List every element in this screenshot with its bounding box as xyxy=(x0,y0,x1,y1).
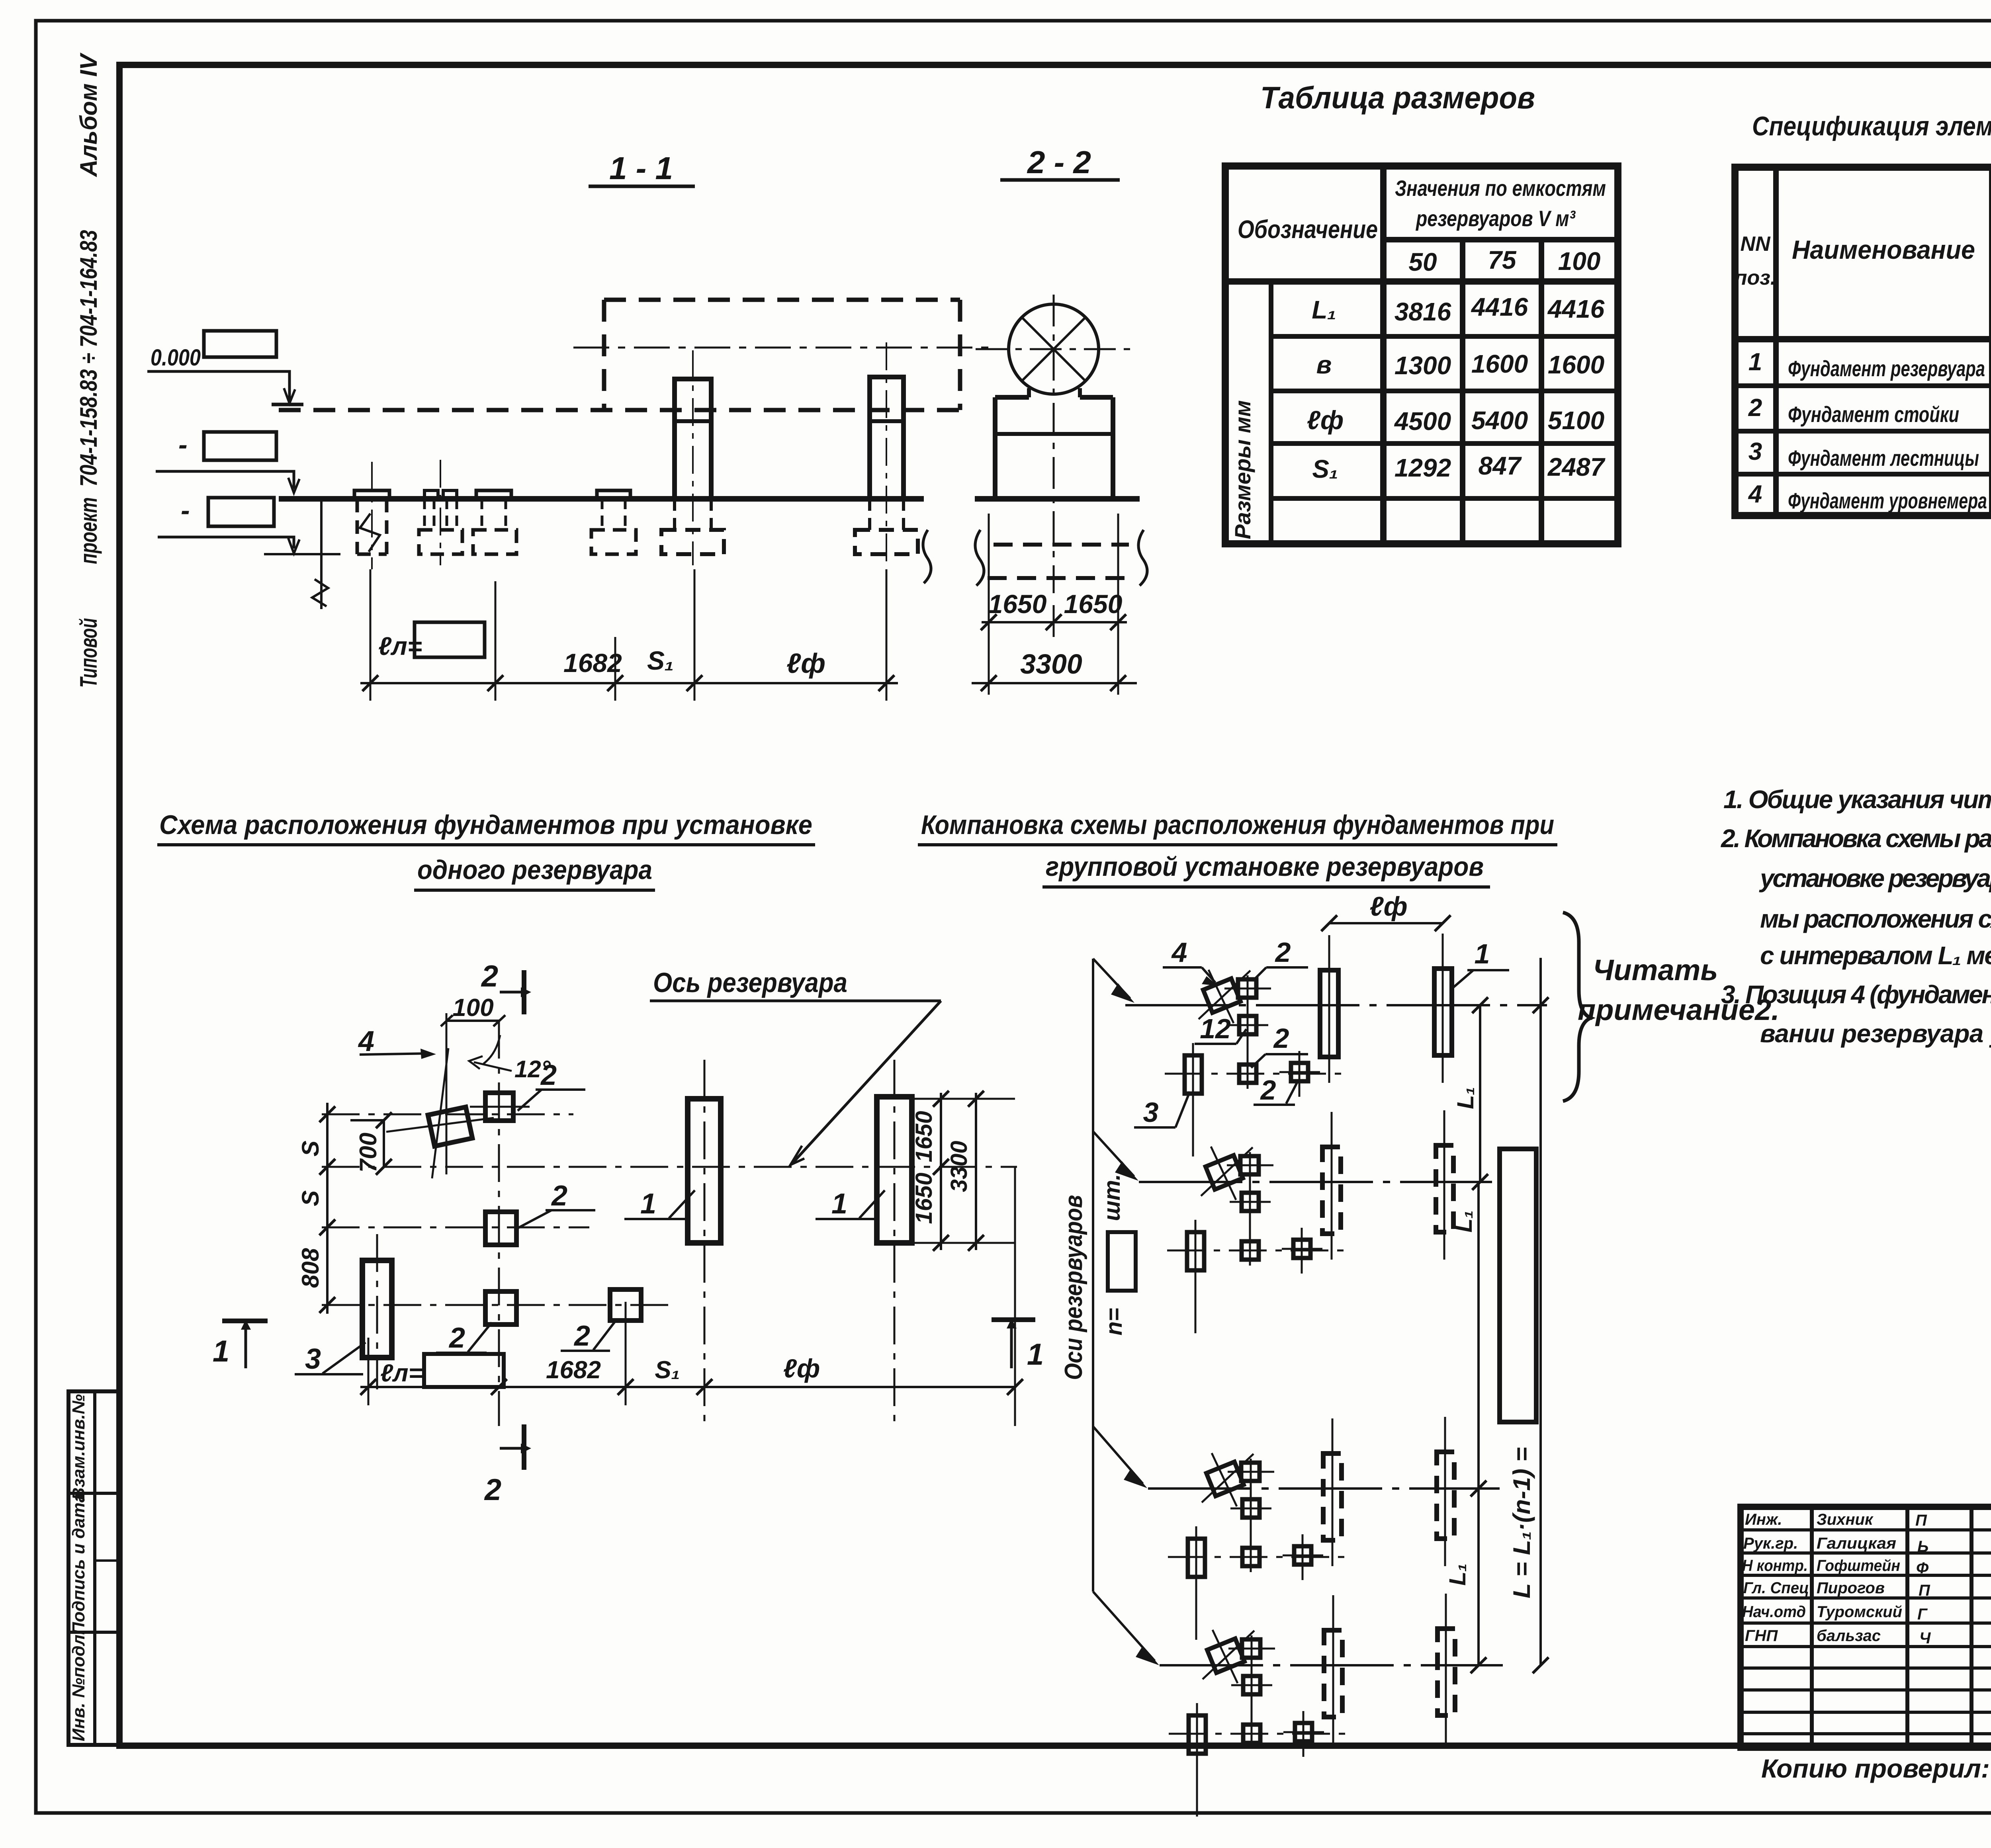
left margin vertical project text xyxy=(75,52,102,688)
svg-text:2: 2 xyxy=(1273,1023,1289,1054)
svg-text:групповой установке резервуа: групповой установке резервуаров xyxy=(1046,852,1484,882)
svg-text:2: 2 xyxy=(448,1322,465,1354)
tank axis line 1-1 xyxy=(573,347,992,349)
ground line section 1-1 xyxy=(279,496,924,502)
svg-text:ℓф: ℓф xyxy=(1369,891,1407,922)
svg-text:2: 2 xyxy=(551,1180,567,1212)
svg-text:мы расположения схемы фундаме: мы расположения схемы фундаментов для од… xyxy=(1760,904,1991,933)
section mark 1 left xyxy=(213,1320,268,1368)
svg-text:L = L₁·(n-1) =: L = L₁·(n-1) = xyxy=(1508,1447,1535,1598)
dim L1 row1-row2 xyxy=(1453,997,1488,1190)
tank circle 2-2 xyxy=(976,295,1135,593)
right vertical dims 1650/1650/3300 (single scheme) xyxy=(911,1091,1015,1251)
svg-text:2 - 2: 2 - 2 xyxy=(1027,145,1091,180)
bottom dim chain single scheme xyxy=(360,1167,1023,1426)
svg-text:75: 75 xyxy=(1488,246,1517,274)
svg-text:3: 3 xyxy=(1748,438,1762,465)
svg-text:Пирогов: Пирогов xyxy=(1817,1579,1885,1597)
svg-text:3300: 3300 xyxy=(946,1141,972,1192)
tilted foundation 4 xyxy=(386,1048,494,1178)
section mark 1 right xyxy=(992,1319,1044,1371)
group row 3 pier right dashed xyxy=(1437,1452,1454,1539)
pier 2-2 xyxy=(995,388,1113,499)
group scheme left guide line xyxy=(1092,959,1094,1592)
svg-text:Типовой: Типовой xyxy=(75,618,102,688)
dimension table grid xyxy=(1225,166,1618,544)
svg-text:704-1-158.83 ÷ 704-1-164.83: 704-1-158.83 ÷ 704-1-164.83 xyxy=(75,230,102,487)
left vertical dim chain S S 808 xyxy=(297,1103,335,1314)
dimension chain 1-1 xyxy=(360,569,898,701)
foundation square 2 (middle) xyxy=(485,1212,516,1245)
svg-text:одного резервуара: одного резервуара xyxy=(417,855,652,885)
label 3 xyxy=(295,1342,366,1375)
svg-text:Копию проверил:: Копию проверил: xyxy=(1761,1754,1990,1783)
label 2 middle xyxy=(518,1180,595,1228)
svg-text:5100: 5100 xyxy=(1548,406,1604,435)
label 1 (group) xyxy=(1453,938,1509,987)
elevation mark 0.000 xyxy=(147,331,303,404)
svg-text:1650: 1650 xyxy=(988,589,1047,619)
wire ground line section 2-2 xyxy=(975,496,1140,502)
svg-text:700: 700 xyxy=(355,1133,381,1172)
svg-text:4500: 4500 xyxy=(1394,407,1451,436)
elevation mark minus ground xyxy=(156,430,299,493)
svg-text:4416: 4416 xyxy=(1471,293,1528,321)
svg-text:1650: 1650 xyxy=(911,1111,937,1162)
svg-text:Ось резервуара: Ось резервуара xyxy=(653,967,847,998)
svg-text:1300: 1300 xyxy=(1394,351,1451,380)
dimension 1650 1650 for 2-2 xyxy=(981,514,1127,695)
svg-text:ℓф: ℓф xyxy=(1307,405,1344,435)
group row 1 pier mid xyxy=(1320,935,1338,1083)
svg-text:Рук.гр.: Рук.гр. xyxy=(1743,1535,1798,1552)
svg-text:1. Общие указания читать: 1. Общие указания читать на листе 1. xyxy=(1723,785,1991,814)
svg-text:847: 847 xyxy=(1479,451,1522,480)
dimension table texts xyxy=(1230,176,1606,539)
svg-text:Гл. Спец: Гл. Спец xyxy=(1743,1579,1809,1597)
svg-text:L₁: L₁ xyxy=(1445,1563,1471,1586)
tank dashed outline 1-1 xyxy=(279,300,960,410)
break wavy 2-2 right xyxy=(1138,530,1147,586)
svg-text:L₁: L₁ xyxy=(1451,1210,1477,1233)
label 4 with leader xyxy=(358,1026,436,1059)
svg-text:ℓф: ℓф xyxy=(786,648,825,679)
svg-text:в: в xyxy=(1316,350,1332,379)
label 2 (square A) xyxy=(1254,937,1308,980)
svg-text:2: 2 xyxy=(573,1320,590,1352)
group row 2 pier right dashed xyxy=(1436,1145,1453,1232)
svg-text:Зихник: Зихник xyxy=(1817,1511,1874,1528)
svg-text:2. Компановка схемы располож: 2. Компановка схемы расположения фундаме… xyxy=(1721,824,1991,853)
svg-text:4: 4 xyxy=(1748,481,1762,508)
svg-text:808: 808 xyxy=(297,1248,324,1288)
svg-text:1: 1 xyxy=(1748,348,1762,376)
svg-text:Фундамент стойки: Фундамент стойки xyxy=(1788,402,1959,427)
break wavy 2-2 left xyxy=(975,530,984,586)
dim L1 row3-row4 xyxy=(1445,1489,1486,1673)
svg-text:Фундамент уровнемера: Фундамент уровнемера xyxy=(1788,488,1987,513)
svg-text:2: 2 xyxy=(484,1473,501,1507)
svg-text:Размеры мм: Размеры мм xyxy=(1230,400,1255,539)
svg-text:S: S xyxy=(297,1190,324,1206)
svg-text:Обозначение: Обозначение xyxy=(1238,215,1378,244)
foundation 1 rect right xyxy=(877,1060,912,1426)
section title 1-1 xyxy=(589,150,695,186)
right tall rectangle xyxy=(1500,1149,1536,1422)
elevation mark minus footing xyxy=(158,495,340,554)
spec table header texts xyxy=(1735,176,1991,328)
svg-text:установке резервуаров выполн: установке резервуаров выполняется путём … xyxy=(1759,864,1991,893)
svg-text:поз.: поз. xyxy=(1735,266,1776,289)
group row 3 axis xyxy=(1148,1487,1500,1490)
guide arrow row4 xyxy=(1093,1592,1159,1665)
svg-text:Ч: Ч xyxy=(1919,1629,1931,1647)
label 12 xyxy=(1195,1013,1246,1044)
guide arrow row2 xyxy=(1093,1131,1138,1181)
lower sub-axis xyxy=(322,1304,673,1306)
svg-text:4: 4 xyxy=(1171,937,1187,968)
svg-text:Подпись и дата: Подпись и дата xyxy=(69,1493,88,1635)
svg-text:0.000: 0.000 xyxy=(151,345,201,371)
svg-text:2: 2 xyxy=(1748,394,1762,422)
svg-text:1: 1 xyxy=(831,1188,847,1220)
note pointer text xyxy=(1578,953,1780,1026)
svg-text:Туромский: Туромский xyxy=(1817,1603,1902,1621)
verticals left part xyxy=(1810,1507,1814,1748)
group row 2 cluster xyxy=(1167,1147,1345,1333)
small foundation D xyxy=(591,490,636,554)
left stamp column xyxy=(68,1391,119,1745)
svg-text:Гофштейн: Гофштейн xyxy=(1817,1557,1900,1575)
label 2 for top square xyxy=(518,1059,585,1111)
guide arrow row1 xyxy=(1093,959,1134,1003)
svg-text:1650: 1650 xyxy=(1064,589,1123,619)
svg-text:n=: n= xyxy=(1101,1308,1127,1335)
svg-text:3816: 3816 xyxy=(1394,297,1451,326)
svg-text:Альбом IV: Альбом IV xyxy=(75,52,102,178)
svg-text:ГНП: ГНП xyxy=(1745,1627,1778,1645)
svg-text:резервуаров V м³: резервуаров V м³ xyxy=(1415,206,1576,231)
single scheme title xyxy=(157,810,815,890)
svg-text:1: 1 xyxy=(213,1334,229,1368)
label 2 bottom-right xyxy=(561,1320,616,1352)
svg-text:1650: 1650 xyxy=(911,1172,937,1224)
middle sub-axis xyxy=(322,1227,589,1229)
svg-text:Галицкая: Галицкая xyxy=(1817,1535,1896,1552)
svg-text:2: 2 xyxy=(481,959,498,993)
ladder foundation 3 xyxy=(362,1234,392,1389)
break squiggle below dim left xyxy=(360,514,380,552)
foundation 1 rect left xyxy=(688,1060,721,1426)
footing 2-2 dashed below ground xyxy=(988,545,1129,578)
svg-text:1682: 1682 xyxy=(563,648,622,678)
svg-text:с интервалом L₁ между осями: с интервалом L₁ между осями фезервуаров. xyxy=(1760,941,1991,970)
group row 2 axis xyxy=(1139,1181,1492,1183)
pier column F1 left xyxy=(661,350,724,565)
small foundation stub A xyxy=(354,462,389,569)
svg-text:2: 2 xyxy=(1275,937,1291,968)
svg-text:3. Позиция 4 (фундамент Ф2): 3. Позиция 4 (фундамент Ф2) выполняется … xyxy=(1721,980,1991,1009)
group scheme title xyxy=(918,810,1557,887)
svg-text:ℓл=: ℓл= xyxy=(380,1360,423,1387)
svg-text:-: - xyxy=(178,430,188,460)
section mark 2 top xyxy=(481,959,531,1014)
svg-text:Н контр.: Н контр. xyxy=(1742,1557,1808,1575)
svg-text:2487: 2487 xyxy=(1547,453,1606,481)
group row 1 pier right xyxy=(1434,934,1452,1083)
group row 4 axis xyxy=(1160,1664,1503,1666)
svg-text:100: 100 xyxy=(1558,247,1601,275)
title block signatures xyxy=(1742,1511,1931,1647)
tank axis label xyxy=(650,967,941,1165)
group row 3 pier mid dashed xyxy=(1323,1453,1342,1540)
label 2 (square D) xyxy=(1254,1074,1297,1106)
svg-text:Значения по емкостям: Значения по емкостям xyxy=(1395,176,1606,201)
section mark 2 bottom xyxy=(484,1424,531,1507)
dim L total xyxy=(1508,958,1549,1673)
group row 4 cluster xyxy=(1169,1630,1347,1817)
svg-text:1682: 1682 xyxy=(546,1356,601,1384)
upper sub-axis xyxy=(322,1113,573,1115)
label 3 (group) xyxy=(1134,1092,1190,1128)
svg-text:Схема расположения фундаменто: Схема расположения фундаментов при устан… xyxy=(159,810,812,840)
dim 100 top xyxy=(441,994,505,1174)
svg-text:3: 3 xyxy=(305,1343,321,1375)
svg-text:S₁: S₁ xyxy=(655,1356,680,1384)
center column line xyxy=(498,1021,500,1426)
svg-text:1600: 1600 xyxy=(1548,350,1604,379)
svg-text:Компановка схемы расположения: Компановка схемы расположения фундаменто… xyxy=(921,810,1554,840)
svg-text:Фундамент лестницы: Фундамент лестницы xyxy=(1788,445,1979,471)
svg-text:Ь: Ь xyxy=(1917,1538,1928,1555)
svg-text:Таблица размеров: Таблица размеров xyxy=(1260,80,1535,115)
dim L1 row2-row3 xyxy=(1451,1182,1486,1496)
svg-text:Г: Г xyxy=(1917,1606,1928,1623)
small foundation C xyxy=(473,490,516,554)
svg-text:1: 1 xyxy=(1475,938,1490,969)
group row 4 pier right dashed xyxy=(1438,1629,1455,1715)
svg-text:3300: 3300 xyxy=(1020,649,1082,680)
horizontal rows left part xyxy=(1741,1528,1991,1532)
label 1 left xyxy=(624,1188,695,1220)
dim 700 vertical xyxy=(350,1112,392,1175)
svg-text:2: 2 xyxy=(540,1059,557,1091)
section title 2-2 xyxy=(1000,145,1120,180)
svg-text:S: S xyxy=(297,1141,324,1156)
svg-text:L₁: L₁ xyxy=(1453,1087,1479,1109)
foundation square 2 (bottom left) xyxy=(485,1291,516,1324)
curly brace xyxy=(1563,912,1591,1101)
svg-text:ℓф: ℓф xyxy=(783,1354,820,1383)
svg-text:50: 50 xyxy=(1408,248,1437,276)
svg-text:вании резервуара уровнемера: вании резервуара уровнемерам. xyxy=(1760,1019,1991,1048)
svg-text:-: - xyxy=(181,495,190,525)
svg-text:П: П xyxy=(1919,1582,1930,1599)
svg-text:4416: 4416 xyxy=(1547,295,1605,323)
svg-text:Инж.: Инж. xyxy=(1745,1511,1782,1528)
foundation square 2 (top) xyxy=(470,1093,530,1121)
svg-text:проект: проект xyxy=(75,497,102,564)
svg-text:1: 1 xyxy=(1027,1338,1044,1371)
svg-text:Оси резервуаров: Оси резервуаров xyxy=(1060,1195,1087,1380)
notes text block xyxy=(1721,785,1991,1048)
spec table grid xyxy=(1735,167,1991,516)
pier column F1 right xyxy=(855,342,918,565)
svg-text:Нач.отд: Нач.отд xyxy=(1742,1603,1806,1621)
spec table data texts xyxy=(1748,348,1991,513)
svg-text:2: 2 xyxy=(1260,1074,1276,1106)
svg-text:L₁: L₁ xyxy=(1312,295,1336,324)
svg-text:бальзас: бальзас xyxy=(1817,1627,1881,1645)
label 2 (square B) xyxy=(1251,1023,1308,1068)
group row 1 axis xyxy=(1125,1004,1547,1006)
label 2 bottom-left xyxy=(436,1322,492,1354)
svg-text:4: 4 xyxy=(358,1026,374,1057)
group row 1 cluster xyxy=(1165,970,1343,1156)
svg-text:шт.: шт. xyxy=(1099,1174,1125,1221)
main tank axis (single scheme) xyxy=(322,1166,1017,1168)
svg-text:100: 100 xyxy=(452,994,493,1022)
n quantity box xyxy=(1108,1232,1136,1291)
svg-text:5400: 5400 xyxy=(1471,406,1528,435)
svg-text:1: 1 xyxy=(640,1188,656,1220)
svg-text:NN: NN xyxy=(1740,232,1771,256)
dim lf group top xyxy=(1321,891,1451,931)
svg-text:1600: 1600 xyxy=(1471,350,1528,378)
svg-text:1 - 1: 1 - 1 xyxy=(609,150,673,186)
group row 3 cluster xyxy=(1168,1453,1346,1640)
svg-text:3: 3 xyxy=(1143,1097,1159,1128)
svg-text:Фундамент резервуара: Фундамент резервуара xyxy=(1788,356,1985,381)
svg-text:Читать: Читать xyxy=(1593,953,1718,987)
svg-text:12: 12 xyxy=(1200,1013,1231,1044)
group row 2 pier mid dashed xyxy=(1322,1147,1341,1234)
dimension 3300 for 2-2 xyxy=(972,649,1137,691)
group row 4 pier mid dashed xyxy=(1324,1630,1342,1717)
guide arrow row3 xyxy=(1093,1426,1147,1488)
svg-text:Наименование: Наименование xyxy=(1792,235,1975,264)
label 4 xyxy=(1163,937,1218,986)
label 1 right xyxy=(816,1188,885,1220)
break wavy right end of 1-1 xyxy=(923,530,931,583)
svg-text:Инв. №подл: Инв. №подл xyxy=(69,1635,88,1741)
svg-text:Спецификация элементов к сх: Спецификация элементов к схеме расположе… xyxy=(1752,111,1991,141)
ladder foundation B xyxy=(419,460,462,565)
svg-text:S₁: S₁ xyxy=(647,646,674,675)
foundation square 2 (bottom right) xyxy=(610,1289,641,1321)
svg-text:S₁: S₁ xyxy=(1312,455,1338,483)
svg-text:Взам.инв.№: Взам.инв.№ xyxy=(69,1394,88,1500)
label 12deg with arc xyxy=(469,1035,551,1082)
svg-text:Ф: Ф xyxy=(1916,1559,1929,1577)
break wavy line left of ground xyxy=(320,500,323,609)
svg-text:П: П xyxy=(1915,1512,1927,1529)
svg-text:1292: 1292 xyxy=(1394,453,1451,482)
